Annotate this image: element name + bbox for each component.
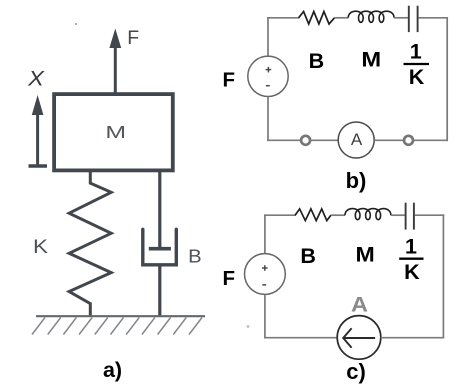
svg-text:K: K (404, 260, 420, 284)
wire: bottom segment from ammeter b (374, 139, 404, 141)
stray speck top-left (75, 23, 77, 25)
wire: left side bottom b (267, 97, 269, 142)
svg-text:K: K (409, 65, 425, 89)
wire: between inductor and capacitor c (391, 214, 405, 216)
label 1/K fraction (circuit c) (399, 235, 423, 284)
svg-text:1: 1 (405, 235, 417, 259)
wire: bottom right segment c (381, 337, 444, 339)
ammeter A (circuit b) (338, 122, 374, 158)
svg-text:F: F (223, 68, 236, 91)
wire: left side bottom c (264, 295, 266, 339)
mass M block (54, 94, 173, 170)
wire: bottom segment to ammeter b (310, 139, 338, 141)
svg-text:K: K (33, 237, 48, 258)
svg-text:b): b) (346, 168, 367, 193)
wire: bottom right segment b (413, 139, 448, 141)
displacement X arrow (29, 95, 48, 166)
svg-text:A: A (351, 293, 368, 317)
damper B rod (158, 170, 161, 248)
force F arrow (109, 29, 121, 94)
damper lower rod (158, 264, 161, 316)
wire: between resistor and inductor b (335, 17, 349, 19)
wire: left side top c (264, 214, 266, 253)
svg-text:B: B (309, 49, 325, 73)
node terminal left (circuit b) (301, 136, 310, 145)
resistor B (circuit b) (299, 12, 335, 25)
voltage source F (circuit b) (248, 56, 288, 96)
svg-text:B: B (188, 247, 202, 268)
wire: between inductor and capacitor b (394, 17, 408, 19)
wire: top left segment c (264, 214, 296, 216)
svg-text:1: 1 (410, 40, 422, 64)
svg-text:F: F (223, 267, 236, 290)
inductor M (circuit b) (348, 11, 394, 22)
current source A (circuit c) (337, 316, 381, 360)
wire: between resistor and inductor c (331, 214, 345, 216)
svg-text:A: A (351, 130, 363, 149)
wire: top right segment b (419, 17, 448, 19)
svg-text:M: M (361, 48, 381, 71)
wire: top right segment c (415, 214, 444, 216)
spring K (69, 172, 111, 316)
wire: top left segment b (267, 17, 299, 19)
svg-text:F: F (127, 27, 139, 49)
wire: bottom left segment c (264, 337, 337, 339)
capacitor 1/K (circuit b) (409, 6, 418, 32)
capacitor 1/K (circuit c) (406, 203, 414, 230)
svg-text:a): a) (103, 358, 122, 382)
resistor B (circuit c) (295, 209, 331, 221)
voltage source F (circuit c) (245, 254, 286, 295)
ground hatching (32, 318, 202, 335)
svg-text:M: M (105, 121, 126, 142)
svg-text:M: M (355, 243, 374, 267)
wire: right side b (446, 17, 448, 141)
ground line (36, 315, 205, 317)
node terminal right (circuit b) (404, 136, 413, 145)
wire: right side c (442, 214, 444, 338)
svg-text:X: X (27, 67, 45, 91)
svg-text:c): c) (346, 359, 366, 384)
svg-text:B: B (300, 244, 316, 268)
damper cylinder cup (143, 229, 177, 264)
inductor M (circuit c) (345, 209, 391, 220)
wire: left side top b (267, 17, 269, 56)
damper piston plate (149, 247, 171, 251)
wire: bottom left segment b (267, 139, 301, 141)
label 1/K fraction (circuit b) (404, 40, 430, 89)
stray smudge left of circuit c (247, 325, 250, 328)
